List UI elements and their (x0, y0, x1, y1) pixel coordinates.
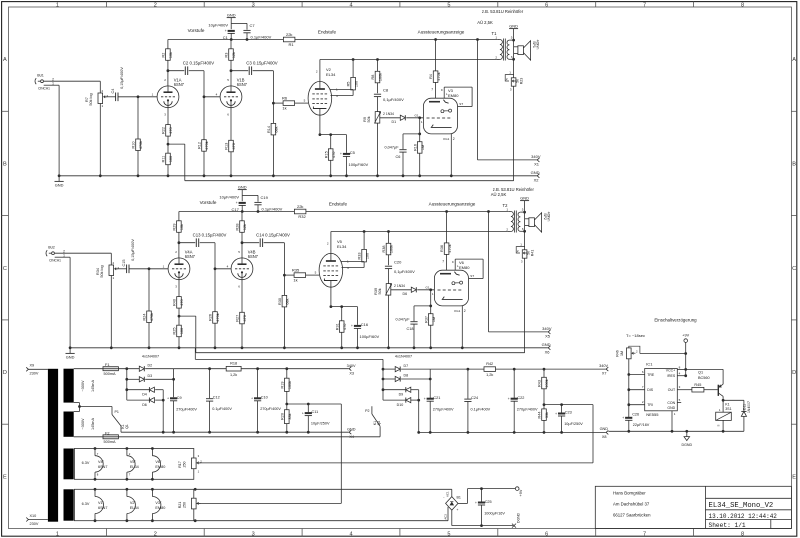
svg-text:R24: R24 (143, 314, 147, 321)
ground bus symbol (66, 346, 75, 359)
svg-text:KG1: KG1 (443, 137, 449, 141)
resistor R35 grid stopper (292, 267, 319, 282)
svg-text:EL34: EL34 (130, 506, 139, 510)
svg-text:5: 5 (447, 2, 450, 8)
transformer T2 (503, 203, 524, 233)
wire feedback from R23 (196, 258, 525, 353)
svg-text:33k: 33k (545, 412, 549, 418)
svg-text:6.3V: 6.3V (82, 502, 90, 506)
svg-text:T= ~18sec: T= ~18sec (626, 333, 645, 338)
wire B+ rail Vorstufe (179, 211, 295, 213)
svg-text:7: 7 (431, 87, 433, 91)
svg-text:C14 0.15µF/400V: C14 0.15µF/400V (256, 233, 290, 238)
svg-text:K1: K1 (725, 402, 729, 406)
resistor R4 (429, 38, 441, 98)
label Endstufe (329, 201, 348, 206)
wire 9V feed (629, 342, 687, 370)
capacitor C20 (385, 260, 415, 284)
svg-text:Aussteuerungsanzeige: Aussteuerungsanzeige (429, 202, 476, 207)
svg-text:D: D (792, 370, 796, 376)
svg-text:10µF/400V: 10µF/400V (219, 194, 239, 199)
svg-text:R8: R8 (371, 75, 375, 80)
label Aussteuerungsanzeige (429, 202, 476, 207)
resistor R44 (538, 405, 550, 434)
svg-text:250: 250 (182, 462, 186, 468)
transformer TR1 primary winding (48, 369, 58, 522)
svg-text:AÜ 2,5K: AÜ 2,5K (477, 20, 493, 25)
svg-text:1k: 1k (282, 106, 286, 111)
terminal X1 340V (531, 154, 541, 167)
svg-text:OUT: OUT (668, 388, 676, 392)
wire secondary to ground (509, 23, 518, 77)
svg-text:R11: R11 (162, 156, 166, 163)
svg-text:470: 470 (343, 324, 347, 330)
svg-text:+: + (555, 412, 557, 416)
wire input signal (44, 81, 101, 93)
wire ground rail channel 1 supply (121, 431, 349, 433)
svg-text:6SN7: 6SN7 (98, 465, 108, 469)
svg-text:R16: R16 (413, 144, 417, 151)
svg-text:EL34: EL34 (326, 72, 336, 77)
resistor R30 grid leak (278, 275, 290, 349)
svg-text:EM80: EM80 (155, 506, 165, 510)
wire eye cathode (450, 134, 453, 177)
wire ground bus (58, 175, 537, 177)
terminal X2 GND (531, 170, 540, 183)
svg-text:B: B (792, 161, 796, 167)
svg-text:+: + (456, 508, 458, 512)
resistor R8 (371, 60, 383, 94)
svg-text:145mA: 145mA (91, 418, 95, 430)
svg-text:10µF/400V: 10µF/400V (208, 22, 228, 27)
IC timer IC1 NE555 (642, 362, 681, 417)
svg-text:IC1: IC1 (646, 362, 653, 367)
wire to grid V1B (214, 243, 232, 271)
wire wiper to C4 (115, 268, 127, 270)
svg-text:E: E (792, 474, 796, 480)
capacitor C4 (111, 67, 124, 101)
svg-text:P2: P2 (365, 409, 369, 413)
capacitor C22 (508, 369, 538, 434)
label Endstufe (318, 29, 337, 34)
svg-text:0.1µF/400V: 0.1µF/400V (262, 207, 283, 212)
svg-text:500mA: 500mA (104, 440, 116, 444)
svg-text:DGND: DGND (516, 512, 520, 523)
svg-text:500mA: 500mA (104, 372, 116, 376)
wire detector to eye grid (417, 288, 434, 307)
svg-text:V1": V1" (98, 501, 105, 505)
svg-text:470k: 470k (205, 141, 209, 149)
svg-text:6SN7: 6SN7 (174, 82, 185, 87)
svg-text:22k: 22k (286, 32, 292, 37)
svg-text:B1: B1 (457, 495, 461, 499)
svg-text:1,2k: 1,2k (486, 373, 493, 377)
svg-text:C19: C19 (261, 195, 269, 200)
svg-text:X9: X9 (30, 364, 35, 368)
heater V7 row2 (94, 488, 108, 522)
potentiometer R41 (516, 243, 534, 264)
channel 2 amplifier (46, 184, 552, 359)
ground DGND delay (682, 430, 693, 447)
tube V1B triode (216, 71, 248, 117)
svg-text:C13 0.15µF/400V: C13 0.15µF/400V (193, 233, 227, 238)
svg-text:50k: 50k (367, 116, 371, 122)
svg-text:270µF/400V: 270µF/400V (260, 407, 281, 411)
svg-text:+: + (251, 397, 253, 401)
svg-text:13.10.2012 12:44:42: 13.10.2012 12:44:42 (709, 513, 778, 520)
svg-text:+: + (475, 501, 477, 505)
capacitor C7 (243, 23, 271, 41)
svg-text:SP2: SP2 (543, 213, 547, 220)
svg-text:R44: R44 (538, 412, 542, 419)
resistor R20 (280, 404, 292, 434)
svg-text:22k: 22k (297, 204, 303, 209)
resistor R11 (162, 144, 174, 177)
label delay time (626, 333, 645, 338)
wire heater box row 2 (74, 489, 193, 520)
relay contact K1 standby (112, 410, 129, 432)
svg-text:R21: R21 (178, 502, 182, 509)
svg-text:5: 5 (447, 531, 450, 537)
svg-text:R5: R5 (347, 82, 351, 87)
capacitor C23 (544, 403, 593, 434)
tube V6 magic eye EM80 (425, 259, 483, 313)
potentiometer R23 (505, 71, 523, 92)
svg-text:10k: 10k (169, 52, 173, 58)
label output transformer type (491, 187, 535, 197)
svg-text:R14: R14 (267, 126, 271, 133)
svg-text:6SN7: 6SN7 (248, 254, 259, 259)
wire ground rail channel 2 supply (419, 431, 606, 433)
label rectifier bank 2 (395, 354, 412, 358)
resistor R27 cathode (236, 280, 248, 350)
svg-text:1M: 1M (421, 145, 425, 150)
svg-text:C22: C22 (517, 396, 524, 400)
diode D9 (399, 387, 411, 396)
wire heater elevation channel 2 (196, 405, 593, 463)
wire input signal (55, 253, 112, 265)
svg-text:66127 Saarbrücken: 66127 Saarbrücken (613, 512, 651, 517)
ground (227, 12, 247, 29)
label output transformer type (477, 9, 524, 25)
heater V5 row1 (126, 447, 139, 481)
title block (595, 486, 791, 529)
svg-text:ST: ST (459, 102, 463, 106)
wire anode to OT (331, 230, 507, 253)
svg-text:ST: ST (470, 274, 474, 278)
svg-text:Q1: Q1 (698, 371, 703, 375)
potentiometer R7 volume (85, 89, 109, 177)
transformer TR1 heater winding 2 (64, 489, 74, 520)
wire eye cathode (461, 306, 464, 349)
svg-text:D3: D3 (148, 374, 153, 378)
svg-text:68k: 68k (275, 126, 279, 132)
speaker SP2 (525, 212, 551, 232)
svg-text:K1: K1 (373, 421, 377, 425)
svg-text:X1: X1 (534, 162, 540, 167)
svg-text:R22: R22 (162, 127, 166, 134)
svg-text:R37: R37 (424, 316, 428, 323)
resistor R16 (413, 134, 425, 177)
resistor R38 (382, 232, 394, 266)
svg-text:C16: C16 (361, 322, 369, 327)
svg-text:C21: C21 (433, 396, 440, 400)
capacitor C18 (396, 306, 431, 349)
svg-text:C25: C25 (485, 500, 492, 504)
svg-text:R27: R27 (236, 315, 240, 322)
heater V4 row1 (94, 447, 108, 481)
svg-text:C: C (792, 266, 796, 272)
terminal X5 340V (542, 326, 552, 339)
svg-text:GND: GND (531, 170, 540, 175)
tube V2 pentode EL34 (308, 67, 338, 115)
resistor R31 cathode (330, 287, 358, 349)
bridge rectifier B1 (443, 491, 461, 520)
svg-text:NE555: NE555 (646, 412, 659, 417)
wire feedback to cathode (179, 316, 196, 353)
capacitor C11 (287, 403, 342, 434)
svg-text:340V: 340V (531, 154, 541, 159)
svg-text:GND: GND (347, 427, 356, 431)
diode D4 (142, 387, 154, 396)
label Vorstufe (188, 28, 205, 33)
wire AC feed rectifier 2 (195, 348, 405, 400)
resistor R15 cathode (319, 115, 347, 177)
svg-text:V2": V2" (130, 501, 137, 505)
svg-text:4: 4 (349, 2, 352, 8)
resistor R1 (283, 32, 295, 47)
svg-text:C8: C8 (383, 88, 389, 93)
svg-text:D6: D6 (142, 403, 147, 407)
svg-text:470k: 470k (437, 72, 441, 80)
capacitor C19 (254, 195, 282, 213)
resistor R43 (538, 369, 550, 406)
wire heater winding 2 to bridge (194, 488, 452, 522)
tube V4B triode (227, 243, 259, 289)
svg-text:GND: GND (667, 406, 675, 410)
svg-text:+: + (340, 152, 342, 156)
svg-text:G1: G1 (425, 285, 429, 289)
svg-text:R20: R20 (280, 413, 284, 420)
wire ground bus (69, 347, 548, 349)
svg-text:0,15µF/400V: 0,15µF/400V (120, 67, 124, 89)
svg-text:A: A (3, 57, 7, 63)
svg-text:6: 6 (545, 531, 548, 537)
svg-text:0,047µF: 0,047µF (385, 145, 400, 149)
svg-text:470: 470 (180, 299, 184, 305)
terminal X4 GND (347, 427, 356, 439)
svg-text:AÜ 2,5K: AÜ 2,5K (491, 192, 507, 197)
svg-text:R7: R7 (85, 97, 89, 102)
svg-text:+: + (302, 411, 304, 415)
svg-text:C3 0.15µF/400V: C3 0.15µF/400V (246, 61, 278, 66)
svg-text:AC2: AC2 (443, 514, 447, 520)
resistor R33 screen (341, 232, 369, 268)
svg-text:C5: C5 (350, 150, 356, 155)
wire secondary to ground (520, 195, 529, 249)
wire heater elevation channel 1 (196, 404, 341, 503)
resistor R28 (236, 212, 248, 245)
resistor R25 (173, 316, 185, 349)
svg-text:GND: GND (600, 427, 609, 431)
potentiometer R34 volume (96, 261, 120, 349)
fuse F2 (74, 431, 119, 444)
svg-text:R12: R12 (198, 142, 202, 149)
ground DGND supply (512, 512, 520, 527)
svg-text:C17: C17 (232, 207, 240, 212)
svg-text:KG1: KG1 (454, 309, 460, 313)
potentiometer R46 timing (616, 348, 639, 359)
transformer TR1 secondary HV winding 1 (64, 369, 96, 403)
relay coil K1 (716, 400, 732, 432)
svg-text:340V: 340V (599, 364, 608, 368)
speaker SP1 (514, 40, 540, 60)
svg-text:C: C (3, 266, 7, 272)
svg-text:100: 100 (354, 81, 358, 87)
svg-text:4x1N4007: 4x1N4007 (395, 354, 412, 358)
svg-text:V5": V5" (130, 460, 137, 464)
svg-text:+9V: +9V (682, 333, 689, 337)
svg-text:100: 100 (180, 328, 184, 334)
terminal X7 340V (599, 364, 608, 376)
wire rectifier output 1 (145, 369, 175, 434)
tube V3 magic eye EM80 (414, 87, 472, 141)
svg-text:R10: R10 (132, 142, 136, 149)
diode D6 (142, 398, 154, 407)
svg-text:+: + (225, 29, 227, 33)
svg-text:Q1: Q1 (125, 424, 129, 429)
svg-text:X6: X6 (545, 350, 551, 355)
svg-text:+: + (236, 201, 238, 205)
wire B+ rail channel 1 (174, 367, 349, 370)
svg-text:100k: 100k (545, 379, 549, 387)
svg-text:C2 0.15µF/400V: C2 0.15µF/400V (183, 61, 215, 66)
svg-text:0,047µF: 0,047µF (396, 317, 411, 321)
transistor Q1 BC560 (686, 369, 725, 401)
diode D1 1N34 (380, 112, 405, 124)
resistor R2 (162, 40, 174, 73)
wire to grid V1B (203, 71, 221, 99)
svg-text:R4: R4 (429, 74, 433, 79)
resistor R10 (132, 97, 144, 177)
svg-text:D: D (3, 370, 7, 376)
svg-text:GND: GND (520, 195, 529, 200)
svg-text:Endstufe: Endstufe (329, 201, 348, 206)
svg-text:R33: R33 (358, 253, 362, 260)
svg-text:R30: R30 (278, 298, 282, 305)
svg-text:1,2k: 1,2k (230, 373, 237, 377)
svg-text:1M: 1M (620, 351, 624, 356)
wire input ground (44, 85, 59, 176)
svg-text:GND: GND (542, 342, 551, 347)
svg-text:470k: 470k (150, 313, 154, 321)
svg-text:C18: C18 (407, 327, 414, 331)
svg-text:R41: R41 (531, 250, 535, 257)
svg-text:R13: R13 (225, 143, 229, 150)
svg-text:10k: 10k (180, 224, 184, 230)
svg-text:C23: C23 (565, 411, 572, 415)
svg-text:GND: GND (238, 184, 247, 189)
svg-text:100k: 100k (288, 381, 292, 389)
resistor R22 cathode (162, 108, 174, 146)
svg-text:TRE: TRE (647, 373, 655, 377)
svg-text:CINCH1: CINCH1 (38, 87, 50, 91)
svg-text:2: 2 (453, 137, 455, 141)
svg-text:X5: X5 (545, 334, 551, 339)
label Aussteuerungsanzeige (418, 30, 465, 35)
transformer T1 (492, 31, 513, 61)
svg-text:R28: R28 (236, 224, 240, 231)
svg-text:E: E (3, 474, 7, 480)
terminal X3 340V (347, 364, 356, 376)
svg-text:100k: 100k (379, 73, 383, 81)
svg-text:R17: R17 (178, 461, 182, 468)
svg-text:P1: P1 (115, 410, 119, 414)
wire B+ rail Endstufe (306, 211, 509, 213)
svg-text:/RES: /RES (667, 374, 676, 378)
potentiometer R21 hum balance (178, 498, 201, 509)
svg-text:C6: C6 (396, 155, 401, 159)
svg-text:270µF/400V: 270µF/400V (517, 407, 538, 411)
svg-text:Aussteuerungsanzeige: Aussteuerungsanzeige (418, 30, 465, 35)
svg-text:12k: 12k (243, 224, 247, 230)
svg-text:AC1: AC1 (445, 491, 449, 497)
svg-text:R25: R25 (173, 328, 177, 335)
svg-text:X8: X8 (602, 435, 607, 439)
svg-text:X10: X10 (30, 514, 37, 518)
svg-text:4Ohm: 4Ohm (536, 40, 540, 50)
svg-text:VCC+: VCC+ (666, 368, 675, 372)
svg-text:R40: R40 (173, 299, 177, 306)
wire to grid V2 (272, 71, 283, 105)
svg-text:C26: C26 (632, 412, 639, 416)
svg-text:D10: D10 (397, 403, 404, 407)
svg-text:Endstufe: Endstufe (318, 29, 337, 34)
svg-text:TRI: TRI (647, 403, 653, 407)
diode D3 (139, 374, 152, 382)
svg-text:2 1N34: 2 1N34 (394, 284, 405, 288)
svg-text:2: 2 (154, 2, 157, 8)
capacitor C12 (206, 369, 232, 434)
svg-text:CON: CON (667, 401, 675, 405)
svg-text:X7: X7 (602, 372, 607, 376)
diode D6 1N34 (391, 284, 416, 296)
svg-text:470: 470 (332, 152, 336, 158)
svg-text:1: 1 (56, 2, 59, 8)
heater V2 row2 (126, 488, 139, 522)
svg-text:7: 7 (643, 2, 646, 8)
svg-text:7: 7 (643, 531, 646, 537)
svg-text:470k: 470k (139, 141, 143, 149)
resistor R12 grid leak (198, 97, 210, 177)
connector BU2 input jack (46, 246, 65, 263)
svg-text:470k: 470k (448, 244, 452, 252)
svg-text:4: 4 (349, 531, 352, 537)
svg-text:EL34: EL34 (337, 244, 347, 249)
svg-text:~300V: ~300V (81, 418, 85, 430)
resistor R13 cathode (225, 108, 237, 178)
svg-text:R19: R19 (280, 382, 284, 389)
capacitor C14 coupling (242, 233, 290, 247)
svg-text:0,1µF/400V: 0,1µF/400V (394, 269, 415, 274)
svg-text:Vorstufe: Vorstufe (188, 28, 205, 33)
svg-text:V6": V6" (155, 460, 162, 464)
svg-text:EL34_SE_Mono_V2: EL34_SE_Mono_V2 (709, 502, 774, 510)
capacitor C3 coupling (231, 61, 278, 75)
svg-text:340V: 340V (347, 364, 356, 368)
svg-text:CINCH1: CINCH1 (49, 259, 61, 263)
svg-text:1N4007: 1N4007 (747, 401, 751, 413)
